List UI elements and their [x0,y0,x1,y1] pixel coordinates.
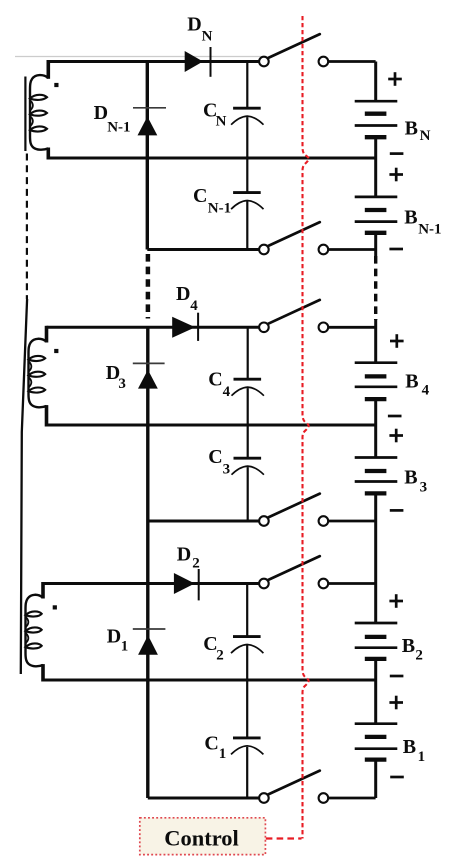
plus sign B_3 [389,434,403,437]
svg-text:N: N [216,114,227,130]
plus sign B_1 [389,701,403,704]
label B_4 [405,370,429,398]
wire T3 top to switch S5 [43,582,259,585]
wire switch S6 to battery stack [328,797,375,800]
svg-text:N-1: N-1 [208,200,231,216]
wire B_N to B_N-1 [374,137,377,197]
wire battery stack top [374,62,377,102]
wire B_3 to B_2 [374,493,377,623]
transformer winding T2 [29,326,47,427]
switch S2 right contact [319,245,329,255]
polarity dot T1 [54,83,58,87]
polarity dot T2 [54,349,58,353]
battery B_2 [355,623,398,659]
label C_N [203,100,227,130]
switch S4 right contact [319,516,329,526]
switch S2 left contact [259,245,269,255]
svg-text:D: D [176,283,190,305]
svg-text:N-1: N-1 [418,222,441,238]
battery B_N-1 [355,197,398,233]
switch S5 blade [268,556,320,580]
wire bottom bottom block [148,797,259,800]
label D_3 [106,362,126,392]
svg-text:C: C [208,446,222,468]
control box [140,818,266,855]
wire mid node middle block [47,424,376,427]
svg-text:B: B [404,207,417,229]
capacitor C_1 [231,680,263,798]
dashed wire continuation center [146,254,151,319]
svg-text:2: 2 [216,648,224,664]
wire D_3 branch [146,327,149,798]
control sense line (red dashed) [303,16,309,839]
capacitor C_N [231,62,263,159]
capacitor C_3 [232,425,264,521]
switch S5 right contact [319,579,329,589]
switch S6 right contact [319,793,329,803]
svg-text:B: B [403,736,416,758]
svg-text:C: C [204,732,218,754]
svg-text:4: 4 [190,298,198,314]
svg-text:N: N [420,128,431,144]
svg-text:3: 3 [118,376,126,392]
label C_4 [208,368,230,400]
svg-text:D: D [187,14,201,36]
plus sign B_N [388,78,402,81]
battery B_1 [355,724,398,760]
wire B_2 to B_1 [374,659,377,724]
svg-text:4: 4 [223,384,231,400]
transformer winding T1 [30,60,48,160]
scan artifact line [15,56,261,58]
wire bottom top block [147,248,259,251]
svg-text:B: B [405,117,418,139]
switch S3 right contact [319,323,329,333]
switch S3 blade [268,300,320,324]
svg-text:2: 2 [192,556,200,572]
switch S1 right contact [319,57,329,67]
label D_2 [177,543,200,571]
wire T2 top to switch S3 [47,326,261,329]
svg-text:D: D [177,543,191,565]
diode D_N-1 [133,108,166,136]
svg-text:Control: Control [164,826,239,851]
transformer winding T3 [26,582,44,682]
capacitor C_N-1 [231,158,263,250]
svg-text:N: N [202,29,213,45]
diode D_N [185,47,211,77]
switch S4 blade [268,494,320,518]
switch S4 left contact [259,516,269,526]
minus sign B_3 [390,509,404,512]
label C_2 [203,633,223,664]
wire switch S5 to battery stack [328,582,375,585]
svg-text:1: 1 [219,746,227,762]
wire continuation to B_4 [374,320,377,363]
switch S3 left contact [259,323,269,333]
diode D_2 [174,569,199,600]
label D_1 [107,625,129,654]
label B_3 [404,467,427,496]
label C_1 [204,732,226,762]
svg-text:1: 1 [121,638,129,654]
diode D_4 [172,313,198,341]
minus sign B_4 [388,415,402,418]
minus sign B_N [390,152,404,155]
label C_3 [208,446,230,478]
wire mid node top block [48,157,375,160]
wire switch S2 to battery stack [328,248,375,251]
minus sign B_2 [390,675,404,678]
control connector (red dashed) [266,837,302,839]
dashed battery stack continuation [374,256,377,320]
wire switch S3 to battery stack [328,326,375,329]
switch S5 left contact [259,579,269,589]
minus sign B_1 [390,776,404,779]
switch S1 blade [268,34,320,58]
capacitor C_4 [232,327,264,425]
battery B_3 [355,458,398,494]
shared core line T2 T3 [21,299,27,674]
svg-text:N-1: N-1 [107,120,130,136]
svg-text:4: 4 [422,383,430,399]
plus sign B_N-1 [389,173,403,176]
label B_N-1 [404,207,441,238]
battery B_4 [355,363,398,399]
wire battery stack bottom [374,760,377,798]
svg-text:3: 3 [223,461,231,477]
svg-text:D: D [107,625,121,647]
label B_2 [402,635,423,664]
svg-text:3: 3 [420,479,428,495]
label D_N-1 [94,102,131,136]
switch S2 blade [268,222,320,246]
svg-text:2: 2 [415,648,423,664]
switch S6 left contact [259,793,269,803]
plus sign B_2 [389,600,403,603]
diode D_3 [133,363,165,388]
wire mid node bottom block [43,679,376,682]
label B_1 [403,736,425,765]
wire B_N-1 to switch level [374,233,377,256]
label C_N-1 [193,185,231,216]
switch S1 left contact [259,57,269,67]
svg-text:C: C [208,368,222,390]
svg-text:B: B [402,635,415,657]
label D_N [187,14,212,45]
core dashed continuation [26,154,28,300]
wire switch S1 to battery stack [328,60,375,63]
svg-text:1: 1 [418,749,426,765]
label B_N [405,117,431,144]
svg-text:D: D [94,102,108,124]
wire T1 top to switch S1 [48,60,259,63]
switch S6 blade [268,771,320,795]
diode D_1 [133,629,166,655]
wire D_N-1 branch [146,62,149,250]
svg-text:B: B [405,370,418,392]
battery B_N [355,101,398,137]
svg-text:B: B [404,467,417,489]
svg-text:C: C [193,185,207,207]
minus sign B_N-1 [389,248,403,251]
label D_4 [176,283,198,314]
wire bottom middle block [148,520,260,523]
capacitor C_2 [231,584,263,681]
wire switch S4 to battery stack [328,520,375,523]
polarity dot T3 [53,605,57,609]
wire B_4 to B_3 [374,399,377,457]
plus sign B_4 [390,340,404,343]
transformer T1 core bar [24,77,26,152]
